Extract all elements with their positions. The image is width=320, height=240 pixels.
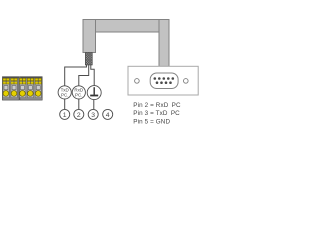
screw hole left [135, 79, 140, 84]
svg-text:PC.: PC. [75, 93, 83, 98]
wire: serial cable left vertical drop [83, 20, 96, 53]
terminal 3 circle [88, 109, 98, 119]
wire: RxD conductor to node 2 [79, 65, 89, 87]
wire: node TxD to terminal 1 [64, 99, 66, 109]
node shield/ground circle [87, 86, 101, 100]
screw hole right [184, 79, 189, 84]
wire: node GND to terminal 3 [93, 100, 95, 110]
svg-text:1: 1 [63, 112, 67, 119]
ground symbol [94, 87, 95, 95]
terminal 4 circle [103, 109, 113, 119]
node RxD PC signal circle [72, 86, 85, 99]
wire: serial cable horizontal run [83, 20, 169, 33]
terminal block X1 [3, 77, 43, 100]
svg-text:4: 4 [106, 112, 110, 119]
svg-text:2: 2 [77, 112, 81, 119]
wire: shield conductor to node 3 [91, 65, 94, 87]
svg-text:PC.: PC. [61, 93, 69, 98]
svg-text:Pin 2 = RxD PC: Pin 2 = RxD PC [133, 102, 181, 109]
node TxD PC signal circle [58, 86, 71, 99]
yellow lever tabs row 2 [3, 82, 42, 84]
slot center splits [6, 78, 38, 84]
slot light panels [3, 77, 42, 97]
svg-text:3: 3 [91, 112, 95, 119]
wire: TxD conductor to node 1 [65, 65, 87, 87]
bottom strip [3, 98, 19, 100]
terminal 1 circle [60, 109, 70, 119]
terminal 2 circle [74, 109, 84, 119]
svg-text:Pin 5 = GND: Pin 5 = GND [133, 118, 170, 125]
left module body [3, 77, 20, 100]
pins 6-9 bottom row [156, 81, 172, 84]
clamp windows [4, 86, 40, 90]
svg-text:Pin 3 = TxD PC: Pin 3 = TxD PC [133, 110, 180, 117]
pin assignment legend [133, 102, 181, 126]
cable braid / shield section [85, 53, 92, 66]
D-sub 9 female connector [150, 73, 178, 89]
wire: serial cable right vertical drop into connector [159, 20, 169, 67]
yellow lever tabs row 1 [3, 78, 42, 80]
pins 1-5 top row [154, 77, 175, 80]
push buttons yellow circles [3, 91, 41, 97]
wire: node RxD to terminal 2 [78, 99, 80, 109]
dark top strips [3, 77, 19, 78]
connector housing (SUB-D socket panel) [128, 66, 198, 95]
right module body [20, 77, 42, 100]
